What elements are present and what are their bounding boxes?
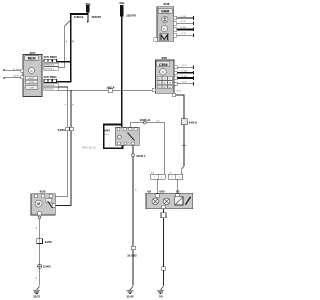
svg-text:0.5 R: 0.5 R bbox=[182, 65, 187, 67]
svg-text:CEM: CEM bbox=[159, 62, 169, 67]
svg-text:6/30: 6/30 bbox=[40, 190, 46, 194]
svg-text:47/5 PIN/3: 47/5 PIN/3 bbox=[44, 55, 58, 59]
svg-text:4/56: 4/56 bbox=[161, 56, 167, 60]
pin CEM 3 bbox=[174, 76, 177, 79]
pin REM left A bbox=[21, 69, 24, 72]
wire CEM row1 bbox=[177, 66, 193, 68]
wire thick vertical to REM pin 1 bbox=[70, 13, 72, 81]
connector tick bbox=[162, 267, 166, 270]
pin CEM 4 bbox=[174, 82, 177, 85]
svg-text:AUX: AUX bbox=[29, 77, 34, 80]
svg-text:0.5 R: 0.5 R bbox=[181, 21, 186, 23]
svg-text:11B/70: 11B/70 bbox=[126, 14, 136, 18]
wire thin long to CEM left pin bbox=[58, 89, 152, 91]
svg-text:11B/70: 11B/70 bbox=[91, 15, 101, 19]
wire stub down with arrow bbox=[87, 13, 89, 22]
ground 31/75 bbox=[33, 286, 41, 298]
svg-text:A 15: A 15 bbox=[177, 90, 182, 93]
wire thick vertical feed to relay 2/64 bbox=[121, 16, 123, 128]
svg-text:47/5 PIN/1: 47/5 PIN/1 bbox=[44, 75, 58, 79]
wire relay top pin to 16/35 line bbox=[129, 123, 131, 128]
wire thick REM row2 bbox=[57, 81, 72, 83]
node 54/35 1 bbox=[132, 145, 146, 158]
svg-text:GMM: GMM bbox=[161, 10, 169, 14]
module REM 4/57 bbox=[23, 51, 42, 97]
ground point G34/0 bbox=[38, 264, 52, 269]
power tap 30a (left) bbox=[85, 2, 90, 13]
svg-text:REM/58-A: REM/58-A bbox=[44, 84, 55, 87]
wire 11B/12 thick horizontal feed bbox=[71, 13, 88, 15]
svg-text:7/0: 7/0 bbox=[159, 294, 163, 298]
wire thin branch down to motor right pin bbox=[55, 90, 71, 205]
lamp cluster 6/55 bbox=[146, 190, 193, 209]
pin CEM bottom A15 bbox=[172, 93, 176, 96]
motor 6/30 (rear wiper) bbox=[31, 190, 55, 215]
svg-text:REM/58-B: REM/58-B bbox=[44, 65, 55, 67]
connector 47/5 PIN3 (REM right, group 1) bbox=[44, 55, 59, 70]
pin GMM 1 bbox=[174, 16, 177, 19]
svg-text:G34/0: G34/0 bbox=[43, 265, 51, 269]
wire REM left 1 bbox=[4, 70, 21, 72]
svg-text:106 R: 106 R bbox=[13, 75, 19, 77]
power tap 30a (right) bbox=[119, 1, 124, 16]
relay 2/64 bbox=[104, 128, 110, 135]
wire R2 to lamp bbox=[177, 179, 179, 193]
svg-text:2/64: 2/64 bbox=[104, 128, 110, 132]
wire down bbox=[163, 218, 165, 286]
module CEM 4/56 bbox=[156, 56, 182, 93]
connector 54/3.8 bbox=[181, 119, 197, 125]
connector R2 (7/8) bbox=[168, 173, 183, 180]
relay box bbox=[115, 127, 139, 145]
svg-text:31-53/2: 31-53/2 bbox=[127, 254, 137, 258]
wire GMM row4 bbox=[177, 34, 193, 36]
svg-text:34/55: 34/55 bbox=[45, 240, 53, 244]
pin GMM 2 bbox=[174, 22, 177, 25]
wire thick REM row1 bbox=[57, 61, 72, 63]
pin REM left B bbox=[21, 76, 24, 79]
wire R1 to lamp bbox=[156, 179, 158, 193]
svg-text:54/35 1: 54/35 1 bbox=[136, 154, 146, 158]
svg-text:0.5 R: 0.5 R bbox=[181, 33, 186, 35]
svg-text:31 SB: 31 SB bbox=[180, 16, 186, 18]
wire REM left 2 bbox=[4, 76, 21, 78]
pin GMM 3 bbox=[174, 28, 177, 31]
svg-text:7/5: 7/5 bbox=[176, 190, 180, 194]
svg-text:V65-A CH 15: V65-A CH 15 bbox=[82, 147, 96, 150]
pin CEM left bbox=[152, 88, 155, 91]
module GMM 8/38 bbox=[154, 2, 174, 41]
svg-text:8/38: 8/38 bbox=[163, 2, 169, 6]
svg-text:30/15 A-1: 30/15 A-1 bbox=[44, 67, 54, 70]
wire down to connector R2 bbox=[183, 125, 185, 167]
svg-text:11B/12: 11B/12 bbox=[74, 15, 84, 19]
svg-text:31 SB: 31 SB bbox=[13, 69, 19, 71]
wire motor ground run bbox=[39, 219, 41, 239]
svg-text:31 SB: 31 SB bbox=[180, 27, 186, 29]
svg-text:K: K bbox=[163, 27, 165, 31]
wire bbox=[39, 268, 41, 285]
connector R1 (6/5) bbox=[151, 172, 166, 180]
node 16/35+/1 bbox=[130, 118, 165, 124]
svg-text:6/5: 6/5 bbox=[147, 190, 151, 194]
svg-text:30a: 30a bbox=[119, 1, 124, 5]
svg-text:6/50: 6/50 bbox=[159, 190, 165, 194]
tick mark bbox=[182, 144, 186, 146]
svg-text:0.5 R: 0.5 R bbox=[182, 81, 187, 83]
wire lamp to ground run bbox=[163, 209, 165, 213]
svg-text:M: M bbox=[37, 202, 40, 206]
wire thin branch to REM bbox=[65, 20, 71, 26]
ground 7/0 bbox=[157, 286, 164, 298]
wire bbox=[39, 243, 41, 264]
svg-text:REM: REM bbox=[28, 57, 36, 61]
svg-text:R: R bbox=[72, 40, 74, 44]
wire CEM row2 bbox=[177, 72, 193, 74]
wire thin to motor pin (x 67.6) bbox=[53, 87, 68, 196]
svg-text:31 SB: 31 SB bbox=[181, 70, 187, 72]
svg-text:47/30: 47/30 bbox=[29, 82, 35, 84]
connector 14/3-A inline on REM-CEM wire bbox=[106, 85, 114, 92]
wire thick loop to relay bbox=[104, 125, 123, 149]
connector 34/55 bbox=[37, 239, 53, 244]
wire GMM row2 bbox=[177, 22, 193, 24]
wire left lamp feed down bbox=[132, 157, 134, 286]
pin GMM 4 bbox=[174, 34, 177, 37]
svg-text:54/3.8: 54/3.8 bbox=[189, 120, 197, 124]
node below motor bbox=[38, 216, 41, 219]
wire CEM to connector 54/3.8 bbox=[176, 95, 184, 119]
wire down to connector R1 bbox=[164, 123, 166, 175]
wire CEM row4 bbox=[177, 83, 193, 85]
connector below lamp bbox=[161, 213, 166, 218]
wire CEM row3 bbox=[177, 77, 193, 79]
connector 47/5 PIN1 (REM right, group 2) bbox=[44, 75, 59, 90]
svg-text:31 SB: 31 SB bbox=[181, 76, 187, 78]
connector 54/50 inline pair bbox=[58, 127, 73, 132]
pin CEM 2 bbox=[174, 71, 177, 74]
svg-text:31/45: 31/45 bbox=[127, 294, 134, 298]
ground 31/45 bbox=[126, 286, 134, 298]
wire GMM row3 bbox=[177, 28, 193, 30]
svg-text:K: K bbox=[162, 70, 164, 74]
wire GMM row1 bbox=[177, 17, 193, 19]
svg-text:30/15 A-2: 30/15 A-2 bbox=[44, 88, 54, 91]
svg-text:31/75: 31/75 bbox=[33, 294, 40, 298]
connector tick 31-53/2 bbox=[127, 246, 137, 258]
svg-text:Rear: Rear bbox=[104, 133, 109, 136]
pin CEM 1 bbox=[174, 66, 177, 69]
svg-text:54/50: 54/50 bbox=[58, 128, 66, 132]
